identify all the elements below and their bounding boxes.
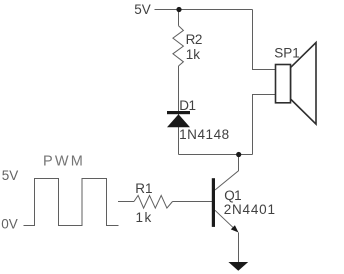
svg-text:0V: 0V xyxy=(1,216,18,231)
svg-text:1k: 1k xyxy=(136,210,153,225)
svg-text:R1: R1 xyxy=(135,181,152,196)
svg-text:2N4401: 2N4401 xyxy=(224,202,276,217)
svg-text:1N4148: 1N4148 xyxy=(179,127,230,142)
svg-text:D1: D1 xyxy=(179,98,195,113)
svg-text:PWM: PWM xyxy=(43,154,85,170)
svg-text:R2: R2 xyxy=(186,32,202,47)
svg-text:1k: 1k xyxy=(186,47,201,62)
svg-text:5V: 5V xyxy=(134,2,151,17)
svg-text:SP1: SP1 xyxy=(274,45,300,60)
svg-text:Q1: Q1 xyxy=(224,188,241,203)
svg-text:5V: 5V xyxy=(2,168,19,183)
